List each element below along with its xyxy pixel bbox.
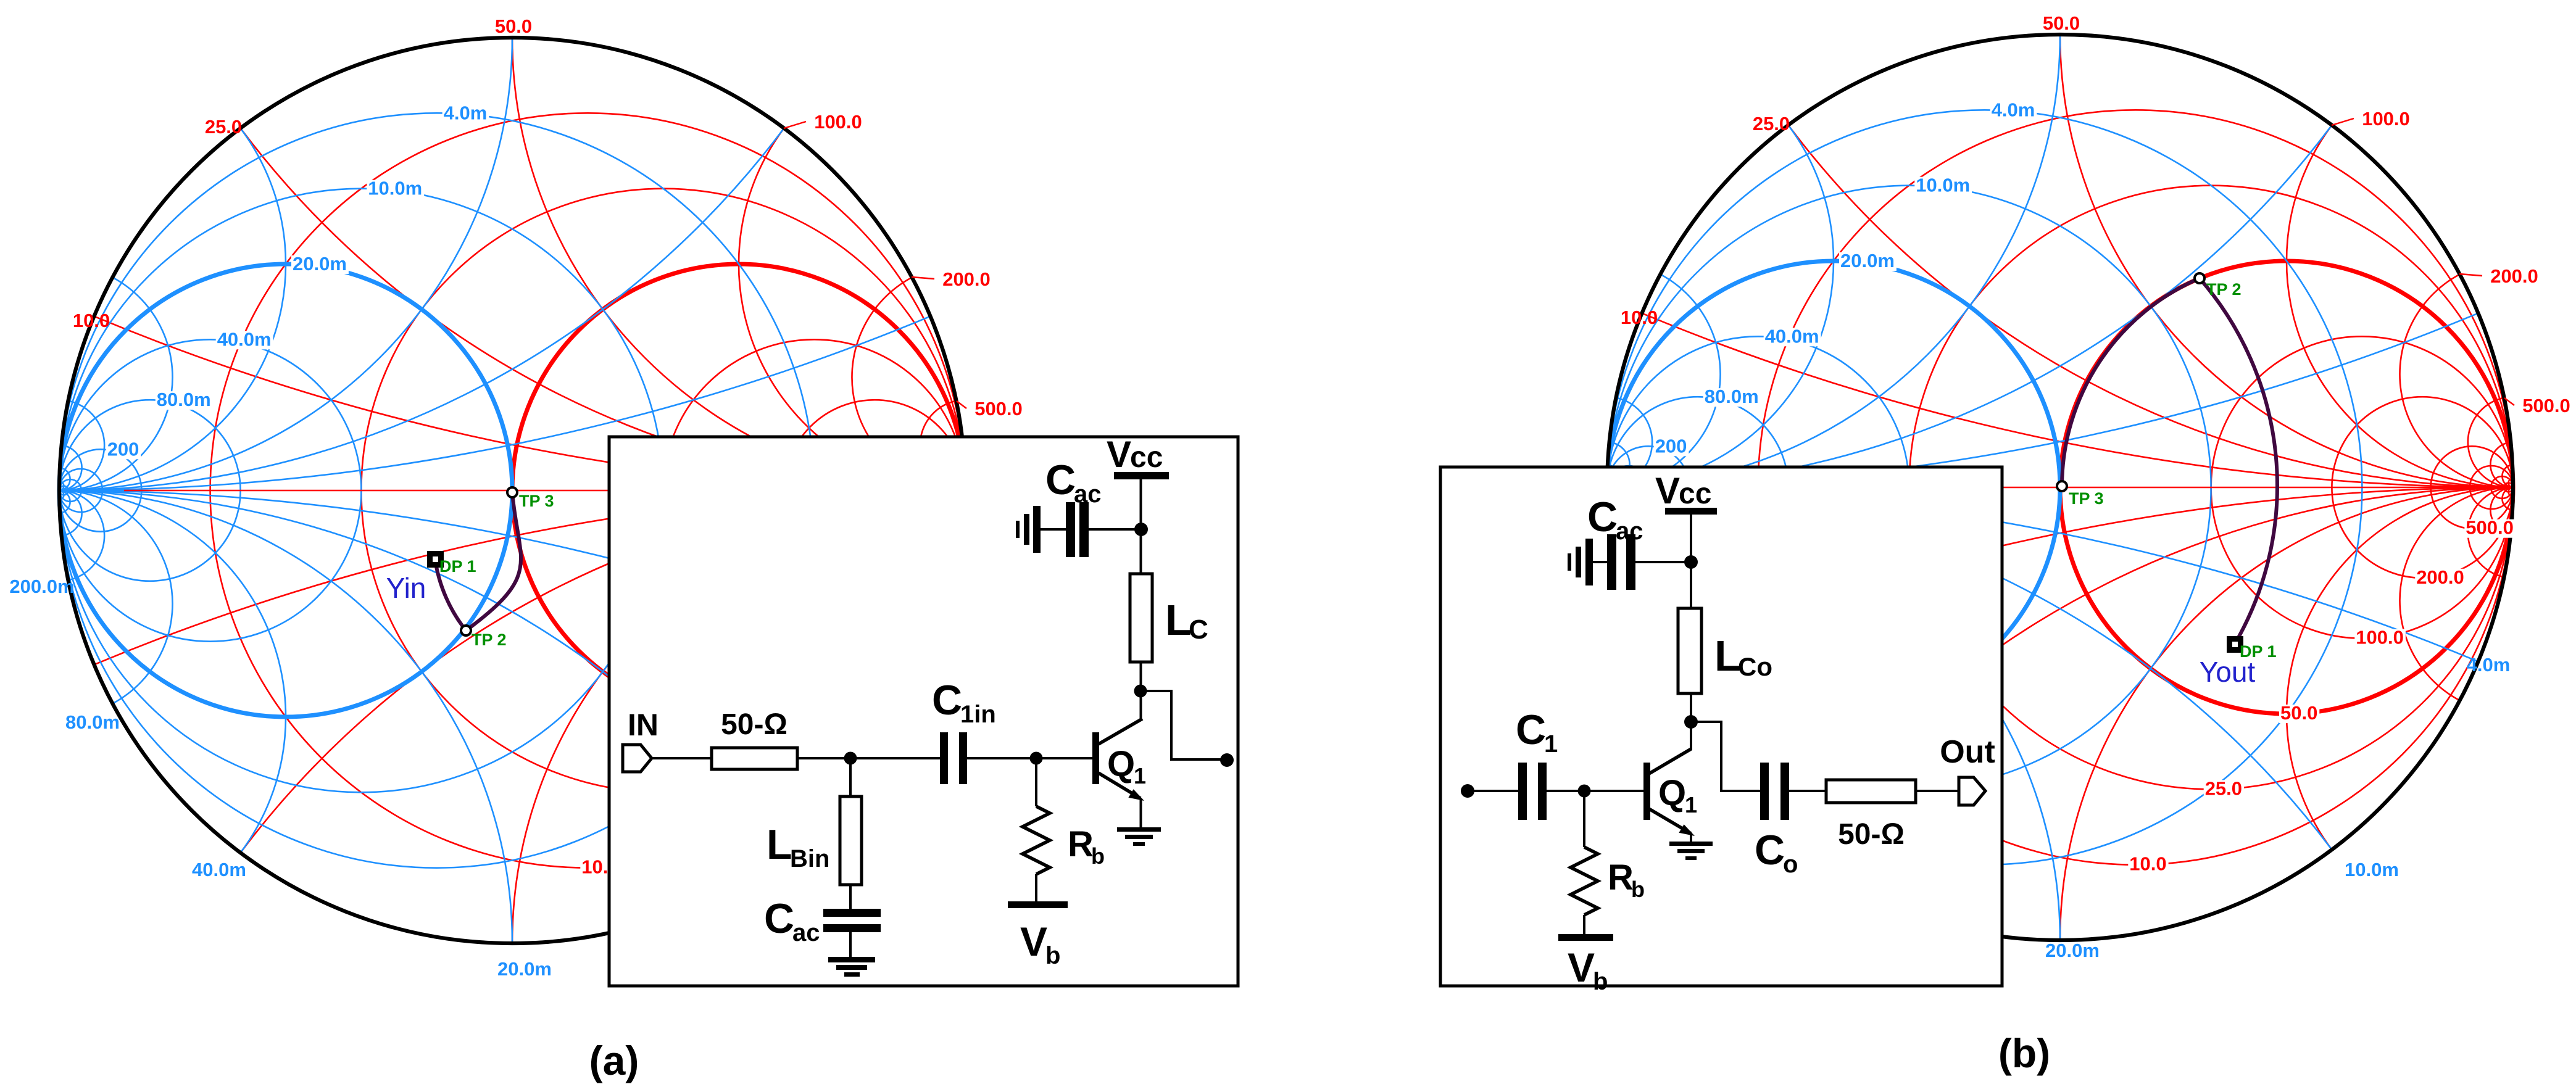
wire base node down to Rb bbox=[1035, 758, 1037, 806]
capacitor Co plates bbox=[1760, 763, 1769, 820]
svg-text:4.0m: 4.0m bbox=[2467, 654, 2511, 676]
svg-text:L: L bbox=[1714, 632, 1741, 680]
collector node junction dot (b) bbox=[1684, 715, 1698, 729]
port IN bbox=[623, 745, 652, 772]
svg-text:50.0: 50.0 bbox=[2280, 702, 2317, 724]
svg-text:80.0m: 80.0m bbox=[1705, 386, 1759, 407]
smith chart B: red resistance labels bbox=[2128, 856, 2168, 874]
transistor Q1 (a) emitter lead bbox=[1099, 773, 1141, 798]
capacitor Cac (a, top) plates bbox=[1066, 502, 1075, 557]
svg-text:1in: 1in bbox=[960, 701, 996, 728]
wire C1in to base node bbox=[967, 757, 1092, 759]
svg-text:10.0: 10.0 bbox=[2129, 853, 2166, 875]
svg-text:C: C bbox=[1755, 827, 1785, 874]
resistor Rb zigzag (b) bbox=[1571, 847, 1598, 915]
transistor Q1 (a) base bar bbox=[1092, 732, 1099, 784]
smith chart B: admittance (blue) susceptance arcs bbox=[1607, 35, 2478, 940]
svg-text:V: V bbox=[1020, 919, 1047, 964]
smith chart B: outer unit circle bbox=[1607, 35, 2513, 940]
svg-text:C: C bbox=[1587, 494, 1618, 540]
inset box circuit (b) bbox=[1440, 467, 2002, 986]
svg-text:100.0: 100.0 bbox=[2356, 627, 2404, 648]
svg-text:40.0m: 40.0m bbox=[192, 859, 246, 880]
svg-text:4.0m: 4.0m bbox=[444, 102, 488, 123]
capacitor C1 plates bbox=[1518, 763, 1527, 820]
ground (a, below Cac) bbox=[828, 957, 875, 962]
wire 50-ohm to Out port bbox=[1916, 790, 1959, 792]
inset box circuit (a) bbox=[609, 437, 1238, 986]
wire Cac to Vcc node (b) bbox=[1635, 561, 1691, 563]
svg-text:50.0: 50.0 bbox=[2043, 12, 2080, 34]
supply bar Vb (a) bbox=[1008, 901, 1068, 908]
svg-text:25.0: 25.0 bbox=[2205, 777, 2242, 799]
smith chart B: blue conductance labels bbox=[1990, 101, 2037, 120]
trajectory Yout on chart (b): TP2->DP1 arc bbox=[2200, 278, 2277, 644]
wire collector node right to output bbox=[1141, 691, 1223, 759]
svg-text:o: o bbox=[1783, 851, 1798, 878]
wire node A down to LBin bbox=[849, 758, 852, 796]
svg-text:25.0: 25.0 bbox=[205, 116, 242, 138]
trajectory Yin on chart (a): DP1->TP2 arc bbox=[435, 560, 466, 631]
svg-text:C: C bbox=[932, 677, 962, 724]
svg-text:20.0m: 20.0m bbox=[2045, 940, 2100, 961]
svg-text:C: C bbox=[764, 895, 794, 942]
wire Cac top to side ground bbox=[1041, 528, 1066, 531]
wire Rb to Vb bbox=[1035, 874, 1037, 901]
wire base bar to base node (b) bbox=[1547, 790, 1643, 792]
svg-text:C: C bbox=[1189, 614, 1208, 645]
svg-text:C: C bbox=[1516, 706, 1546, 753]
svg-text:L: L bbox=[767, 821, 792, 868]
ground (a, emitter) bbox=[1117, 827, 1161, 832]
svg-text:V: V bbox=[1568, 945, 1595, 990]
svg-text:b: b bbox=[1091, 843, 1105, 869]
wire IN to 50-ohm bbox=[652, 757, 712, 759]
svg-text:200: 200 bbox=[107, 438, 139, 460]
svg-text:50-Ω: 50-Ω bbox=[1838, 818, 1905, 851]
svg-text:TP 3: TP 3 bbox=[2069, 489, 2104, 508]
wire Vcc node down to LCo bbox=[1690, 562, 1692, 608]
wire base node down to Rb (b) bbox=[1583, 791, 1585, 847]
svg-text:1: 1 bbox=[1134, 763, 1146, 788]
svg-text:10.0m: 10.0m bbox=[368, 178, 422, 199]
svg-text:cc: cc bbox=[1130, 441, 1163, 474]
svg-text:(b): (b) bbox=[1998, 1030, 2050, 1076]
test point marker TP 3 (a) bbox=[507, 487, 517, 497]
svg-text:20.0m: 20.0m bbox=[1840, 250, 1895, 271]
node A junction dot (50-ohm / LBin) bbox=[844, 752, 857, 765]
smith chart B: admittance (blue) conductance circles bbox=[1607, 110, 2362, 864]
collector node junction dot bbox=[1134, 685, 1147, 698]
smith chart A: blue susceptance labels bbox=[9, 576, 962, 980]
supply bar Vcc (a) bbox=[1114, 472, 1169, 479]
transistor Q1 (b) emitter arrow bbox=[1679, 824, 1695, 836]
svg-text:V: V bbox=[1655, 470, 1680, 511]
transistor Q1 (b) base bar bbox=[1643, 763, 1650, 820]
svg-text:b: b bbox=[1631, 877, 1645, 902]
svg-text:20.0m: 20.0m bbox=[497, 958, 552, 980]
ground (b, emitter) bbox=[1669, 842, 1713, 846]
svg-text:ac: ac bbox=[1616, 518, 1643, 545]
svg-text:1: 1 bbox=[1685, 792, 1697, 817]
smith chart A: blue conductance labels bbox=[442, 104, 489, 123]
smith chart A: outer unit circle bbox=[59, 38, 965, 943]
side ground (a, top Cac) bbox=[1033, 506, 1041, 553]
supply bar Vb (b) bbox=[1558, 934, 1613, 941]
wire collector node up to LC bbox=[1140, 662, 1142, 691]
svg-text:Out: Out bbox=[1940, 734, 1995, 770]
wire Rb to Vb (b) bbox=[1583, 915, 1585, 934]
resistor 50-ohm (a) bbox=[712, 748, 797, 769]
output terminal dot bbox=[1220, 753, 1234, 767]
svg-text:b: b bbox=[1593, 968, 1608, 995]
svg-text:500.0: 500.0 bbox=[974, 398, 1023, 420]
svg-text:200.0: 200.0 bbox=[2490, 265, 2538, 287]
svg-text:TP 2: TP 2 bbox=[2206, 280, 2242, 299]
wire Vcc node up to Vcc bar bbox=[1140, 479, 1142, 529]
smith chart A: impedance (red) reactance arcs bbox=[94, 38, 966, 943]
svg-text:ac: ac bbox=[1074, 481, 1102, 508]
smith chart A: admittance (blue) susceptance arcs bbox=[59, 38, 931, 943]
svg-text:10.0m: 10.0m bbox=[2345, 859, 2399, 880]
wire Vcc node to Cac top bbox=[1089, 528, 1141, 531]
trajectory Yout on chart (b): TP3->TP2 arc bbox=[2062, 278, 2200, 486]
svg-text:100.0: 100.0 bbox=[2362, 108, 2410, 130]
wire collector node right then down to Co bbox=[1691, 722, 1760, 791]
inductor LBin bbox=[840, 796, 862, 885]
svg-text:500.0: 500.0 bbox=[2466, 517, 2514, 539]
svg-text:Q: Q bbox=[1658, 773, 1686, 813]
smith chart A: impedance (red) resistance circles bbox=[210, 113, 965, 867]
data point marker DP 1 (b) bbox=[2227, 636, 2243, 653]
node B junction dot (C1in / Rb / base) bbox=[1030, 752, 1043, 765]
svg-text:V: V bbox=[1107, 434, 1131, 475]
smith chart A: red reactance labels bbox=[73, 15, 1023, 420]
svg-text:10.0m: 10.0m bbox=[1916, 175, 1970, 196]
svg-text:Co: Co bbox=[1738, 652, 1772, 681]
trajectory Yin on chart (a): TP3->TP2 arc bbox=[466, 492, 521, 631]
wire Vcc bar down to Vcc node (b) bbox=[1690, 515, 1692, 562]
smith chart B: red reactance labels bbox=[1621, 12, 2570, 416]
smith chart B: horizontal axis bbox=[1607, 487, 2513, 489]
transistor Q1 (b) collector lead bbox=[1690, 722, 1692, 750]
smith chart B: blue susceptance labels bbox=[1557, 573, 2510, 961]
capacitor Cac (a, lower) plates bbox=[823, 909, 881, 917]
svg-text:Yout: Yout bbox=[2200, 656, 2256, 688]
svg-text:Yin: Yin bbox=[386, 572, 426, 604]
svg-text:C: C bbox=[1045, 457, 1076, 503]
side ground (b, Cac) bbox=[1585, 539, 1593, 585]
svg-text:1: 1 bbox=[1544, 730, 1558, 758]
svg-text:DP 1: DP 1 bbox=[439, 557, 476, 576]
smith chart A: horizontal axis bbox=[59, 490, 965, 492]
svg-text:200: 200 bbox=[1655, 435, 1687, 457]
svg-text:TP 3: TP 3 bbox=[519, 492, 554, 510]
transistor Q1 (b) emitter lead bbox=[1649, 809, 1691, 833]
data point marker DP 1 (a) bbox=[427, 551, 444, 568]
smith chart A: red resistance labels bbox=[580, 859, 620, 877]
port Out bbox=[1959, 777, 1985, 805]
Vcc node junction dot bbox=[1134, 523, 1148, 536]
wire Cac to ground bbox=[849, 932, 852, 957]
svg-text:IN: IN bbox=[628, 708, 659, 742]
svg-text:80.0m: 80.0m bbox=[157, 389, 211, 410]
wire LBin to Cac bbox=[849, 885, 852, 909]
transistor Q1 (a) emitter arrow bbox=[1128, 789, 1144, 801]
svg-text:40.0m: 40.0m bbox=[217, 328, 272, 350]
test point marker TP 2 (a) bbox=[461, 626, 471, 635]
svg-text:cc: cc bbox=[1679, 478, 1711, 510]
test point marker TP 3 (b) bbox=[2057, 481, 2067, 491]
svg-text:R: R bbox=[1608, 858, 1634, 898]
capacitor C1in plates bbox=[940, 732, 948, 784]
resistor 50-ohm (b) bbox=[1826, 780, 1916, 803]
svg-text:25.0: 25.0 bbox=[1753, 113, 1790, 134]
svg-text:10.0: 10.0 bbox=[1621, 307, 1658, 328]
resistor Rb zigzag (a) bbox=[1023, 806, 1050, 874]
input terminal dot (b) bbox=[1461, 784, 1474, 798]
svg-text:R: R bbox=[1068, 824, 1094, 864]
svg-text:40.0m: 40.0m bbox=[1765, 325, 1819, 347]
svg-text:TP 2: TP 2 bbox=[472, 631, 507, 649]
svg-text:50.0: 50.0 bbox=[495, 15, 532, 37]
svg-text:500.0: 500.0 bbox=[2522, 395, 2570, 416]
inductor LC bbox=[1130, 574, 1152, 662]
supply bar Vcc (b) bbox=[1665, 508, 1717, 515]
inductor LCo bbox=[1678, 608, 1701, 693]
svg-text:80.0m: 80.0m bbox=[65, 711, 120, 733]
Vcc node junction dot (b) bbox=[1684, 555, 1698, 569]
base node junction dot (b) bbox=[1578, 785, 1591, 798]
test point marker TP 2 (b) bbox=[2195, 273, 2204, 283]
svg-text:L: L bbox=[1165, 596, 1192, 644]
wire LCo to collector node bbox=[1690, 693, 1692, 722]
svg-text:100.0: 100.0 bbox=[814, 111, 862, 133]
svg-text:20.0m: 20.0m bbox=[293, 253, 347, 275]
smith chart A: admittance (blue) conductance circles bbox=[59, 113, 814, 867]
svg-text:ac: ac bbox=[792, 919, 820, 946]
svg-text:Q: Q bbox=[1107, 744, 1135, 784]
capacitor Cac (b) plates bbox=[1607, 534, 1616, 590]
smith chart B: impedance (red) reactance arcs bbox=[1642, 35, 2514, 940]
svg-text:50-Ω: 50-Ω bbox=[721, 708, 787, 741]
wire Co to 50-ohm (b) bbox=[1789, 790, 1826, 792]
svg-text:(a): (a) bbox=[589, 1038, 639, 1083]
smith chart B: impedance (red) resistance circles bbox=[1758, 110, 2513, 864]
transistor Q1 (a) collector lead bbox=[1099, 719, 1142, 744]
svg-text:200.0m: 200.0m bbox=[9, 576, 74, 597]
svg-text:10.0: 10.0 bbox=[73, 310, 110, 331]
wire C1 to input dot bbox=[1472, 790, 1518, 792]
wire LC to Vcc node bbox=[1140, 529, 1142, 574]
svg-text:b: b bbox=[1045, 942, 1060, 969]
wire 50-ohm to C1in bbox=[797, 757, 940, 759]
svg-text:200.0: 200.0 bbox=[942, 268, 991, 290]
svg-text:200.0: 200.0 bbox=[2416, 566, 2464, 588]
wire Cac to side ground (b) bbox=[1593, 561, 1607, 563]
svg-text:4.0m: 4.0m bbox=[1992, 99, 2035, 120]
svg-text:Bin: Bin bbox=[790, 845, 829, 872]
